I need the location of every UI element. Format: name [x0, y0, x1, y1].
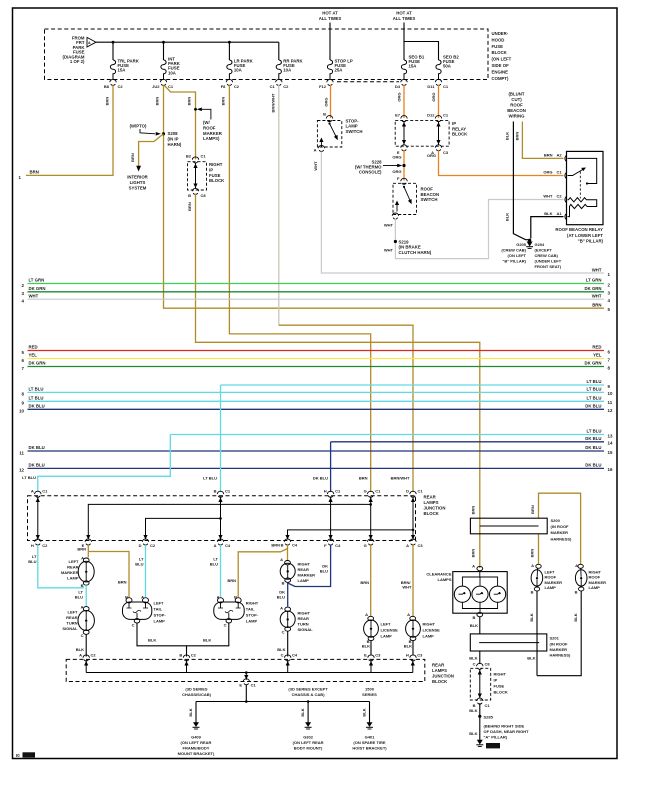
svg-text:MARKER: MARKER: [298, 573, 316, 578]
svg-text:S200: S200: [551, 518, 561, 523]
svg-text:BRN: BRN: [359, 476, 368, 481]
wire SEO fuse feed: [404, 23, 439, 61]
svg-text:(ON SPARE TIRE: (ON SPARE TIRE: [353, 740, 385, 745]
svg-text:RIGHT: RIGHT: [298, 611, 311, 616]
wire line 2 LT GRN: [22, 278, 611, 288]
svg-text:YEL: YEL: [29, 353, 38, 358]
wire BLK right tail to junction: [187, 623, 229, 646]
wire BRN/WHT pin A C3 to right license: [401, 545, 413, 616]
svg-text:BEACON: BEACON: [507, 108, 526, 113]
svg-text:MARKER: MARKER: [203, 131, 223, 136]
svg-text:B: B: [81, 583, 84, 588]
svg-text:C4: C4: [292, 653, 298, 658]
svg-text:15A: 15A: [409, 64, 417, 69]
svg-text:G302: G302: [303, 735, 314, 740]
svg-text:BRN/WHT: BRN/WHT: [391, 476, 410, 481]
ground G302: [293, 722, 324, 750]
svg-text:BRN: BRN: [544, 153, 553, 158]
svg-text:BRN: BRN: [592, 302, 601, 307]
svg-text:COMPT): COMPT): [492, 76, 510, 81]
svg-text:LT BLU: LT BLU: [587, 379, 602, 384]
svg-text:(ON LEFT REAR: (ON LEFT REAR: [293, 740, 324, 745]
svg-text:G200: G200: [487, 744, 498, 749]
svg-text:MARKER: MARKER: [550, 647, 568, 652]
svg-text:BLK: BLK: [76, 647, 84, 652]
svg-text:LAMP: LAMP: [346, 124, 358, 129]
wire BLK clearance to S201: [470, 617, 480, 634]
svg-text:SYSTEM: SYSTEM: [129, 185, 147, 190]
svg-text:A: A: [280, 606, 283, 611]
svg-text:JU2: JU2: [152, 84, 160, 89]
svg-text:1 OF 2): 1 OF 2): [70, 59, 85, 64]
lamp right license: [406, 612, 441, 644]
svg-text:CONSOLE): CONSOLE): [359, 170, 382, 175]
svg-text:(ON LEFT: (ON LEFT: [492, 57, 512, 62]
lamp right rear turn signal: [280, 606, 313, 635]
svg-text:WHT: WHT: [592, 293, 602, 298]
ground G200: [476, 740, 500, 749]
svg-text:RED: RED: [592, 345, 601, 350]
lamp right roof marker: [575, 563, 607, 594]
svg-text:C1: C1: [485, 703, 491, 708]
svg-text:SERIES: SERIES: [362, 692, 377, 697]
svg-text:(3D SERIES EXCEPT: (3D SERIES EXCEPT: [288, 687, 328, 692]
svg-text:DK GRN: DK GRN: [585, 286, 602, 291]
wire line 4 WHT: [22, 293, 611, 303]
svg-text:BLK: BLK: [362, 708, 367, 716]
svg-text:LAMPS: LAMPS: [424, 500, 439, 505]
wire ORG SEO B1 to relay block: [403, 85, 405, 118]
svg-text:D: D: [406, 488, 409, 493]
svg-text:BLOCK: BLOCK: [209, 178, 225, 183]
svg-text:BLOCK: BLOCK: [492, 50, 508, 55]
svg-text:ORG: ORG: [427, 153, 436, 158]
connector pin E C1 (lower block bottom): [239, 679, 256, 688]
svg-text:BRN: BRN: [471, 549, 476, 558]
svg-text:HOIST BRACKET): HOIST BRACKET): [352, 746, 387, 751]
wire LT BLU pin A C4 to right tail: [210, 545, 221, 597]
wire BRN pin B C4 to right marker and tail: [227, 545, 287, 597]
ground G409: [178, 722, 215, 756]
svg-text:BLK: BLK: [277, 647, 285, 652]
svg-text:C1: C1: [168, 84, 174, 89]
svg-text:ORG: ORG: [431, 92, 436, 101]
wire BLK relay A1 to ground: [531, 217, 564, 239]
svg-text:B2: B2: [186, 154, 192, 159]
svg-text:B: B: [282, 581, 285, 586]
svg-text:LEFT: LEFT: [68, 610, 79, 615]
svg-text:TURN: TURN: [66, 621, 77, 626]
svg-text:C2: C2: [234, 84, 240, 89]
svg-text:FUSE: FUSE: [494, 684, 505, 689]
svg-text:SIDE OF: SIDE OF: [492, 63, 510, 68]
svg-text:WHT: WHT: [402, 585, 412, 590]
svg-text:BLU: BLU: [135, 562, 143, 567]
svg-text:B8: B8: [104, 84, 110, 89]
svg-text:25A: 25A: [335, 68, 343, 73]
svg-text:LT BLU: LT BLU: [29, 396, 44, 401]
ground G401: [352, 722, 387, 750]
svg-text:LAMP: LAMP: [67, 576, 79, 581]
svg-text:BRN: BRN: [515, 132, 520, 141]
svg-text:DK BLU: DK BLU: [585, 404, 601, 409]
svg-text:ALL TIMES: ALL TIMES: [393, 16, 416, 21]
svg-text:LICENSE: LICENSE: [381, 628, 399, 633]
splice S285: [478, 714, 529, 739]
svg-text:C3: C3: [417, 653, 423, 658]
svg-text:BRN: BRN: [221, 97, 226, 106]
connector pin D11 C1: [427, 79, 449, 88]
lower block internal bus: [84, 660, 415, 680]
svg-text:C4: C4: [225, 543, 231, 548]
wire BLK ground distribution: [182, 685, 377, 723]
svg-text:LAMP: LAMP: [545, 585, 557, 590]
svg-text:A: A: [407, 612, 410, 617]
connector pin D C2 (bottom): [139, 539, 156, 548]
svg-text:15: 15: [608, 450, 613, 455]
svg-text:BLOCK: BLOCK: [452, 132, 468, 137]
wire BLK right turn to pin C C4: [277, 631, 287, 656]
wire BRN roof marker loop: [530, 493, 581, 564]
wire line 13 LT BLU (starts mid): [170, 429, 613, 439]
svg-text:G204: G204: [535, 242, 546, 247]
node HOT AT ALL TIMES (stop lamp feed): [319, 11, 342, 22]
svg-text:G401: G401: [365, 735, 376, 740]
svg-text:B: B: [531, 589, 534, 594]
svg-text:RIGHT: RIGHT: [423, 622, 436, 627]
connector pin A C4 (bottom): [214, 539, 231, 548]
wire line 7 YEL: [22, 353, 611, 363]
connector pin G (bottom): [364, 539, 374, 548]
svg-text:LIGHTS: LIGHTS: [130, 180, 146, 185]
svg-text:OF DASH, NEAR RIGHT: OF DASH, NEAR RIGHT: [484, 729, 530, 734]
svg-text:LAMP: LAMP: [423, 634, 435, 639]
svg-text:C1: C1: [557, 170, 563, 175]
svg-text:HARNESS): HARNESS): [551, 536, 573, 541]
svg-text:C2: C2: [557, 194, 563, 199]
wire ORG relay block to beacon switch: [392, 150, 404, 181]
svg-text:WHT: WHT: [384, 248, 394, 253]
svg-text:C2: C2: [150, 543, 156, 548]
svg-text:E: E: [239, 683, 242, 688]
svg-text:IP: IP: [494, 678, 498, 683]
svg-text:BLK: BLK: [469, 731, 477, 736]
connector pin A C3 (bottom): [406, 539, 423, 548]
wire BRN/WHT staircase to pin D: [279, 325, 413, 492]
svg-text:ORG: ORG: [392, 169, 401, 174]
connector pin A C1: [22, 475, 48, 497]
svg-text:C1: C1: [335, 488, 341, 493]
splice box S200 in roof marker harness: [470, 518, 572, 541]
wire LT BLU pin H to lamps: [28, 545, 84, 588]
svg-text:C: C: [224, 622, 227, 627]
svg-text:HARN): HARN): [168, 142, 182, 147]
svg-text:BLK: BLK: [148, 637, 156, 642]
svg-text:BLK: BLK: [573, 613, 578, 621]
rear lamps junction block: [28, 495, 446, 541]
svg-text:DK BLU: DK BLU: [585, 445, 601, 450]
wire BRN blunt cut to relay A2: [515, 122, 564, 159]
svg-text:C3: C3: [418, 543, 424, 548]
svg-text:WHT: WHT: [313, 161, 318, 171]
connector pin E (bottom): [82, 539, 92, 548]
svg-text:BRN: BRN: [227, 578, 236, 583]
svg-text:LT GRN: LT GRN: [29, 278, 45, 283]
svg-text:DK BLU: DK BLU: [29, 445, 45, 450]
svg-text:LAMP: LAMP: [298, 578, 310, 583]
svg-text:IP: IP: [209, 167, 213, 172]
svg-text:WHT: WHT: [592, 267, 602, 272]
svg-text:JUNCTION: JUNCTION: [424, 506, 446, 511]
svg-text:15A: 15A: [118, 68, 126, 73]
svg-text:(EXCEPT: (EXCEPT: [535, 247, 553, 252]
svg-text:FUSE: FUSE: [209, 173, 221, 178]
svg-text:BRN: BRN: [105, 97, 110, 106]
svg-text:(ON LEFT REAR: (ON LEFT REAR: [181, 740, 212, 745]
svg-text:(BLUNT: (BLUNT: [509, 92, 525, 97]
svg-text:RIGHT: RIGHT: [494, 672, 507, 677]
svg-text:LEFT: LEFT: [381, 622, 392, 627]
svg-text:INTERIOR: INTERIOR: [127, 174, 148, 179]
wire LT BLU line9 elbow to pin B: [220, 385, 222, 492]
connector pin C1 C2 (RR park): [270, 79, 290, 88]
junction block internal wiring: [36, 497, 415, 541]
svg-text:REAR: REAR: [67, 565, 78, 570]
svg-text:C: C: [281, 653, 284, 658]
svg-text:BLK: BLK: [544, 211, 552, 216]
svg-text:I0: I0: [16, 753, 20, 758]
wire fuse feed bus: [96, 41, 279, 60]
svg-text:50A: 50A: [443, 64, 451, 69]
svg-text:BRN: BRN: [187, 97, 192, 106]
wire WHT stop switch to line 1: [313, 152, 604, 274]
svg-text:REAR: REAR: [432, 663, 445, 668]
fuse INT PARK 10A: [161, 57, 181, 80]
wire BRN B8 to line 1: [19, 85, 113, 180]
svg-text:CLUTCH HARN): CLUTCH HARN): [399, 250, 432, 255]
svg-text:"A" PILLAR): "A" PILLAR): [484, 735, 508, 740]
svg-text:E: E: [364, 653, 367, 658]
svg-text:(CREW CAB): (CREW CAB): [501, 247, 526, 252]
wire BRN pin G to left license: [360, 545, 370, 616]
svg-text:REAR: REAR: [298, 616, 309, 621]
wire dashed segment (box bottom doubling): [337, 81, 399, 83]
svg-text:C1: C1: [201, 154, 207, 159]
svg-text:BLOCK: BLOCK: [432, 679, 448, 684]
svg-text:DK GRN: DK GRN: [29, 361, 46, 366]
svg-text:FUSE: FUSE: [492, 44, 504, 49]
connector pin A C2 (lower block): [79, 653, 96, 661]
svg-text:UNDER-: UNDER-: [492, 31, 509, 36]
svg-text:REAR: REAR: [424, 495, 437, 500]
svg-text:C3: C3: [443, 150, 449, 155]
wire BRN JU2 to line 5: [164, 85, 605, 309]
svg-text:DK BLU: DK BLU: [29, 404, 45, 409]
svg-text:DK BLU: DK BLU: [585, 463, 601, 468]
svg-text:A: A: [314, 148, 317, 153]
svg-text:11: 11: [19, 450, 24, 455]
roof beacon switch: [392, 176, 439, 219]
wire BRN branch JU2 to right IP fuse block: [165, 86, 196, 160]
svg-text:LAMP: LAMP: [154, 619, 166, 624]
svg-text:BRN: BRN: [77, 547, 86, 552]
fuse RR PARK 10A: [276, 58, 303, 79]
svg-text:LAMP: LAMP: [589, 585, 601, 590]
wire ORG stop fuse to switch: [330, 85, 332, 118]
node BLUNT CUT ROOF BEACON WIRING: [507, 92, 526, 119]
splice S208 w/pto arrow: [130, 124, 182, 147]
wire line 14 DK BLU (starts mid): [331, 436, 613, 446]
svg-text:TURN: TURN: [298, 622, 309, 627]
svg-text:BLK: BLK: [188, 708, 193, 716]
svg-text:BEACON: BEACON: [421, 192, 440, 197]
svg-text:"B" PILLAR): "B" PILLAR): [578, 239, 604, 244]
svg-text:SIGNAL: SIGNAL: [62, 626, 78, 631]
svg-text:BLU: BLU: [75, 595, 83, 600]
svg-text:A2: A2: [557, 153, 563, 158]
lamp right rear marker: [280, 557, 315, 586]
svg-text:G409: G409: [191, 735, 202, 740]
svg-text:LT BLU: LT BLU: [587, 396, 602, 401]
svg-text:H: H: [31, 543, 34, 548]
svg-text:C1: C1: [375, 488, 381, 493]
svg-text:BLK: BLK: [300, 708, 305, 716]
wire BRN to clearance lamps (staircase): [196, 194, 480, 568]
fuse SEO B1 15A: [401, 55, 424, 80]
svg-text:C4: C4: [292, 542, 298, 547]
svg-text:C8: C8: [485, 661, 491, 666]
svg-text:BLU: BLU: [277, 595, 285, 600]
svg-text:C3: C3: [375, 653, 381, 658]
svg-text:WHT: WHT: [29, 293, 39, 298]
svg-text:TAIL: TAIL: [246, 607, 255, 612]
svg-text:C2: C2: [91, 653, 97, 658]
svg-text:(IN BRAKE: (IN BRAKE: [399, 245, 421, 250]
svg-text:C2: C2: [42, 543, 48, 548]
svg-text:A: A: [79, 653, 82, 658]
wire BRN pin E to marker lamp and tail lamp: [77, 545, 129, 597]
connector pin B C4 (bottom): [271, 539, 298, 547]
connector pin G C1: [359, 476, 381, 498]
svg-text:E7: E7: [395, 112, 401, 117]
svg-text:JUNCTION: JUNCTION: [432, 674, 454, 679]
wire line 16 DK BLU: [19, 463, 613, 473]
svg-text:F12: F12: [319, 84, 327, 89]
wire ORG relay block to roof beacon relay C1: [427, 150, 564, 176]
svg-text:C: C: [282, 630, 285, 635]
connector pin C C4 (lower block): [281, 653, 298, 661]
svg-text:MOUNT BRACKET): MOUNT BRACKET): [178, 751, 215, 756]
wire line 9 LT BLU (starts mid): [221, 379, 611, 389]
svg-text:ORG: ORG: [324, 97, 329, 106]
svg-text:C8: C8: [201, 193, 207, 198]
svg-text:LT BLU: LT BLU: [587, 387, 602, 392]
svg-text:BLK: BLK: [529, 613, 534, 621]
svg-text:LAMP: LAMP: [246, 619, 258, 624]
svg-text:H: H: [324, 488, 327, 493]
svg-text:LAMPS): LAMPS): [203, 136, 220, 141]
svg-text:12: 12: [608, 408, 613, 413]
svg-text:MARKER: MARKER: [551, 530, 569, 535]
svg-text:RIGHT: RIGHT: [209, 162, 223, 167]
fuse SEO B2 50A: [436, 55, 459, 80]
svg-text:HOT AT: HOT AT: [322, 11, 338, 16]
svg-text:H: H: [406, 653, 409, 658]
svg-text:LT BLU: LT BLU: [203, 476, 217, 481]
svg-text:CREW CAB): CREW CAB): [535, 253, 559, 258]
node INTERIOR LIGHTS SYSTEM: [127, 174, 148, 190]
svg-text:1652: 1652: [24, 753, 34, 758]
svg-text:12: 12: [19, 468, 24, 473]
svg-text:B: B: [179, 653, 182, 658]
connector pin F12: [319, 79, 333, 88]
connector pin E C3 (lower block): [364, 653, 381, 661]
svg-text:1500: 1500: [365, 687, 375, 692]
wire DK BLU line14 to pin H: [330, 442, 332, 492]
wire BRN S208 to interior lights: [130, 134, 164, 172]
svg-text:FRONT SEAT): FRONT SEAT): [535, 264, 562, 269]
svg-text:B: B: [323, 112, 326, 117]
svg-text:(IN IP: (IN IP: [168, 136, 179, 141]
connector pin H C1: [313, 476, 341, 498]
svg-text:MARKER: MARKER: [61, 570, 79, 575]
svg-text:F8: F8: [221, 84, 226, 89]
connector pin F8 C2: [221, 79, 240, 88]
wire BLK blunt cut to ground: [505, 122, 528, 240]
svg-text:SIGNAL: SIGNAL: [298, 627, 314, 632]
svg-text:LAMP: LAMP: [381, 634, 393, 639]
svg-text:WHT: WHT: [384, 223, 394, 228]
svg-text:A: A: [280, 557, 283, 562]
svg-text:A1: A1: [557, 211, 563, 216]
wire LT BLU line13 to pin A: [38, 435, 171, 493]
wire LT BLU pin D to tail lamp: [135, 545, 145, 597]
splice (w/ roof marker lamps): [194, 108, 223, 142]
svg-text:BRN: BRN: [187, 202, 192, 211]
svg-text:BODY MOUNT): BODY MOUNT): [294, 746, 323, 751]
svg-text:LT BLU: LT BLU: [29, 387, 44, 392]
svg-text:BRN: BRN: [530, 505, 535, 514]
svg-text:A: A: [365, 612, 368, 617]
svg-text:10A: 10A: [234, 68, 242, 73]
svg-text:(BEHIND RIGHT SIDE: (BEHIND RIGHT SIDE: [484, 723, 525, 728]
wire line 15 DK BLU: [19, 445, 613, 455]
wire line 6 RED: [22, 345, 611, 355]
wire BLK left roof marker through S201: [527, 591, 537, 676]
svg-text:BRN: BRN: [471, 506, 476, 515]
svg-text:LT GRN: LT GRN: [586, 278, 602, 283]
svg-text:LAMPS: LAMPS: [432, 668, 447, 673]
fuse TRL PARK 15A: [110, 58, 139, 79]
svg-text:BLK: BLK: [469, 655, 477, 660]
svg-text:(AT LOWER LEFT: (AT LOWER LEFT: [567, 233, 603, 238]
wire WHT beacon switch to relay C2: [384, 200, 564, 259]
svg-text:DK BLU: DK BLU: [313, 476, 328, 481]
svg-text:S208: S208: [168, 131, 179, 136]
connector pin B8 C2: [104, 79, 124, 88]
svg-text:C1: C1: [270, 84, 276, 89]
svg-text:A: A: [406, 543, 409, 548]
svg-text:G: G: [364, 543, 367, 548]
svg-text:HARNESS): HARNESS): [550, 653, 572, 658]
svg-text:C2: C2: [191, 653, 197, 658]
right IP fuse block (lower): [470, 661, 508, 708]
wire BLK right roof marker loop: [537, 591, 581, 676]
svg-text:ROOF: ROOF: [203, 125, 216, 130]
svg-text:C: C: [473, 661, 476, 666]
wire BLK left license to pin E C3: [362, 641, 371, 656]
svg-text:CLEARANCE: CLEARANCE: [426, 572, 451, 577]
